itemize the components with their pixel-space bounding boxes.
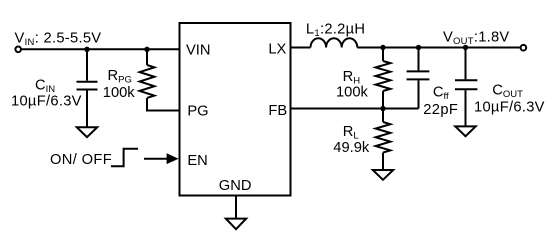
wire RPG to PG pin [147, 98, 180, 111]
node junction VOUT/RH [380, 45, 385, 50]
ground [373, 170, 393, 180]
svg-text:10µF/6.3V: 10µF/6.3V [11, 94, 82, 110]
wire COUT branch [465, 48, 467, 80]
node junction VIN/RPG [144, 47, 149, 52]
wire EN arrowhead [167, 153, 179, 164]
resistor RH [376, 61, 391, 91]
wire EN arrow shaft [144, 158, 169, 160]
wire VIN input [22, 48, 180, 50]
wire COUT to ground [465, 90, 467, 126]
svg-text:LX: LX [268, 42, 286, 58]
wire RH branch [382, 48, 384, 62]
svg-text:PG: PG [187, 103, 208, 119]
svg-text:10µF/6.3V: 10µF/6.3V [474, 99, 545, 115]
svg-text:49.9k: 49.9k [333, 140, 370, 156]
ground [77, 127, 97, 137]
node junction VIN/CIN [84, 47, 89, 52]
inductor L1 [311, 38, 358, 47]
resistor RPG [140, 65, 155, 98]
svg-text:VIN: VIN [186, 43, 210, 59]
wire ON/OFF step symbol [111, 149, 138, 166]
wire RPG branch [146, 49, 148, 65]
node junction FB/RH/RL [380, 106, 385, 111]
wire Cff to FB net [418, 80, 420, 108]
resistor RL [376, 122, 391, 153]
svg-text:EN: EN [187, 153, 207, 169]
capacitor COUT [455, 79, 477, 81]
node junction VOUT/COUT [463, 45, 468, 50]
wire CIN to ground [86, 91, 88, 128]
svg-text:GND: GND [219, 178, 252, 194]
svg-text:ON/ OFF: ON/ OFF [50, 152, 112, 168]
ground [226, 219, 246, 230]
wire RL to ground [382, 153, 384, 170]
node junction VOUT/Cff [416, 45, 421, 50]
wire RL branch [382, 109, 384, 123]
svg-text:VOUT:1.8V: VOUT:1.8V [443, 29, 509, 47]
ground [455, 126, 475, 136]
wire RH to FB [382, 91, 384, 109]
wire LX output [291, 47, 311, 49]
svg-text:22pF: 22pF [423, 102, 458, 118]
wire Cff branch [418, 48, 420, 71]
capacitor CIN [77, 81, 98, 83]
wire CIN branch [86, 49, 88, 80]
wire GND pin to ground [235, 196, 237, 219]
svg-text:100k: 100k [103, 85, 136, 101]
svg-text:100k: 100k [336, 85, 369, 101]
op-amp U1 (regulator IC body) [180, 23, 291, 196]
node VOUT terminal [521, 45, 527, 51]
capacitor Cff [407, 70, 430, 72]
node VIN terminal [15, 47, 21, 53]
wire L1 to VOUT terminal [357, 47, 520, 49]
svg-text:FB: FB [268, 103, 287, 119]
wire FB net [291, 108, 419, 110]
